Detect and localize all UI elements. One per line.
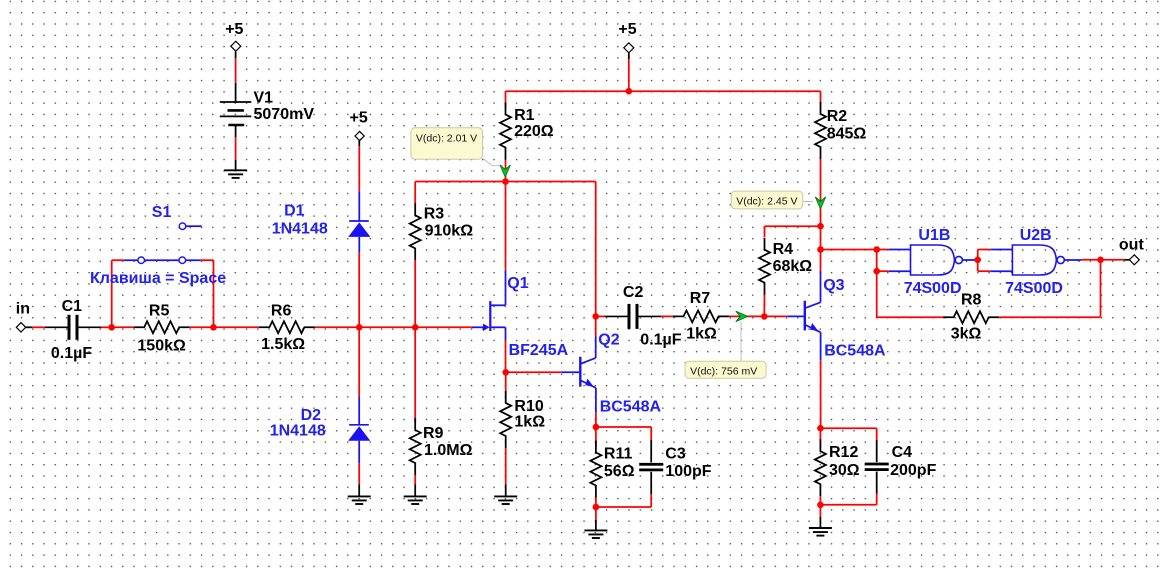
resistor R11 56 xyxy=(595,427,597,446)
wire Q3 emitter down xyxy=(820,332,822,360)
svg-text:1N4148: 1N4148 xyxy=(272,221,328,238)
probe V(dc) 756 mV xyxy=(685,361,766,378)
svg-text:R5: R5 xyxy=(149,303,170,320)
probe arrow (2.45 V) xyxy=(815,197,825,209)
svg-text:150kΩ: 150kΩ xyxy=(137,338,186,355)
wire to out terminal xyxy=(1101,259,1125,261)
nand gate U2B 74S00D xyxy=(1012,245,1056,275)
resistor R3 xyxy=(414,182,416,205)
capacitor C4 200pF xyxy=(876,440,878,462)
svg-text:R10: R10 xyxy=(514,398,543,415)
resistor R2 845 xyxy=(820,91,822,105)
svg-text:C2: C2 xyxy=(623,284,644,301)
resistor R6 xyxy=(214,326,259,328)
svg-text:R1: R1 xyxy=(514,107,535,124)
wire node I to U1B inputs xyxy=(821,249,877,251)
diode D1 1N4148 xyxy=(358,191,360,221)
capacitor C1 xyxy=(45,326,68,328)
svg-text:Q1: Q1 xyxy=(507,275,528,292)
svg-text:R6: R6 xyxy=(271,302,292,319)
wire D2 to ground xyxy=(358,463,360,484)
node C junction (diode branch) xyxy=(356,324,363,331)
node E horizontal wire xyxy=(415,181,596,183)
wire R7 to node G xyxy=(729,315,764,317)
wire Q2 collector to C2 node xyxy=(595,336,597,358)
svg-text:D2: D2 xyxy=(301,407,322,424)
wire +5 to D1 xyxy=(358,141,360,146)
svg-text:BF245A: BF245A xyxy=(509,342,569,359)
svg-text:C1: C1 xyxy=(62,298,83,315)
U1B input junction top xyxy=(873,246,880,253)
wire Q1 source to node F xyxy=(505,340,507,372)
R12 top junction xyxy=(817,425,824,432)
svg-text:C4: C4 xyxy=(892,444,913,461)
U1B input junction bottom xyxy=(876,250,878,272)
svg-text:74S00D: 74S00D xyxy=(1005,280,1063,297)
ground (R11) xyxy=(584,529,607,531)
svg-text:845Ω: 845Ω xyxy=(827,125,867,142)
probe V(dc) 2.45 V xyxy=(731,191,803,209)
wire node F to R10 xyxy=(505,372,507,394)
transistor Q3 BC548A xyxy=(788,315,804,317)
node A junction xyxy=(108,324,115,331)
svg-text:C3: C3 xyxy=(665,446,686,463)
resistor R4 68k xyxy=(759,238,770,295)
svg-text:R3: R3 xyxy=(424,205,445,222)
svg-text:74S00D: 74S00D xyxy=(904,280,962,297)
R12-C4 loop wires xyxy=(820,427,876,429)
svg-text:U1B: U1B xyxy=(918,227,950,244)
wire R4 to node G xyxy=(763,295,765,317)
wire R12 to ground xyxy=(819,505,821,517)
wire node G to Q3 base xyxy=(764,315,787,317)
ground (R9) xyxy=(404,495,427,497)
svg-text:5070mV: 5070mV xyxy=(254,106,315,123)
U1B output wire xyxy=(963,259,978,261)
ground (R12) xyxy=(809,527,832,529)
wire C1 to node A xyxy=(101,326,112,328)
rail junction xyxy=(626,88,633,95)
probe arrow (2.01 V) xyxy=(500,165,510,177)
wire R11 to ground xyxy=(595,507,597,520)
svg-text:1.5kΩ: 1.5kΩ xyxy=(261,336,305,353)
svg-text:+5: +5 xyxy=(618,21,636,38)
svg-text:3kΩ: 3kΩ xyxy=(951,325,982,342)
U2B input tie wires xyxy=(977,250,979,272)
nand gate U1B 74S00D xyxy=(911,245,955,275)
U1B output junction xyxy=(974,257,981,264)
capacitor C3 100pF xyxy=(650,440,652,462)
U2B output wire xyxy=(1064,259,1081,261)
svg-text:1kΩ: 1kΩ xyxy=(514,414,545,431)
svg-text:Q2: Q2 xyxy=(598,332,619,349)
node B junction xyxy=(210,324,217,331)
node H junction (R4 tap) xyxy=(817,223,824,230)
resistor R10 1k xyxy=(500,391,511,448)
wire node D to Q1 gate xyxy=(415,326,472,328)
wire V1 to ground xyxy=(235,125,237,137)
wire R5 to node B xyxy=(190,326,214,328)
wire node E to Q1 drain xyxy=(505,182,507,270)
svg-text:0.1µF: 0.1µF xyxy=(640,332,681,349)
wire R6 to node C xyxy=(315,326,359,328)
transistor Q1 BF245A JFET xyxy=(505,270,507,306)
wire node H to R4 xyxy=(765,225,821,227)
ground (V1) xyxy=(224,169,247,171)
node I junction (gate wire tap) xyxy=(817,246,824,253)
+5 rail wire xyxy=(506,90,821,92)
wire R8 to out node xyxy=(999,316,1100,318)
svg-text:in: in xyxy=(16,301,30,318)
node F junction xyxy=(502,369,509,376)
wire +5 to rail xyxy=(628,53,630,59)
svg-text:R11: R11 xyxy=(604,446,633,463)
switch S1 parallel loop wires xyxy=(111,260,113,327)
probe V(dc) 2.01 V xyxy=(411,128,483,160)
switch S1 xyxy=(124,259,201,261)
svg-text:S1: S1 xyxy=(152,204,172,221)
wire node C to D2 xyxy=(358,327,360,396)
svg-text:+5: +5 xyxy=(225,21,243,38)
out node junction xyxy=(1097,257,1104,264)
wire R2 down to node H xyxy=(820,159,822,226)
svg-text:56Ω: 56Ω xyxy=(604,463,635,480)
svg-text:1kΩ: 1kΩ xyxy=(686,325,717,342)
resistor R8 3k xyxy=(943,311,999,323)
R11 top junction xyxy=(593,424,600,431)
resistor R12 30 xyxy=(819,428,821,447)
svg-text:1.0MΩ: 1.0MΩ xyxy=(424,442,473,459)
resistor R1 220 xyxy=(505,91,507,107)
svg-text:V1: V1 xyxy=(254,90,274,107)
wire R1 to node E xyxy=(505,160,507,182)
wire D1 to node C xyxy=(358,252,360,327)
resistor R9 xyxy=(410,418,421,475)
svg-text:0.1µF: 0.1µF xyxy=(51,345,92,362)
svg-text:910kΩ: 910kΩ xyxy=(425,223,474,240)
resistor R7 1k xyxy=(673,310,729,322)
svg-text:68kΩ: 68kΩ xyxy=(773,258,813,275)
svg-text:Клавиша = Space: Клавиша = Space xyxy=(90,270,226,287)
svg-text:R2: R2 xyxy=(827,108,848,125)
svg-text:100pF: 100pF xyxy=(665,463,711,480)
wire +5 to V1 xyxy=(235,51,237,58)
R12 bottom junction xyxy=(817,502,824,509)
svg-text:1N4148: 1N4148 xyxy=(270,423,326,440)
wire node C to node D xyxy=(359,326,415,328)
wire in to C1 xyxy=(26,326,32,328)
node D junction (R3/R9 branch) xyxy=(412,324,419,331)
svg-text:R12: R12 xyxy=(829,444,858,461)
svg-text:R9: R9 xyxy=(423,425,444,442)
capacitor C2 0.1uF xyxy=(596,315,605,317)
svg-text:BC548A: BC548A xyxy=(824,343,886,360)
wire R3 to node D xyxy=(414,260,416,327)
svg-text:U2B: U2B xyxy=(1020,227,1052,244)
wire R10 to ground xyxy=(505,448,507,485)
node E junction xyxy=(502,178,509,185)
svg-text:V(dc): 756 mV: V(dc): 756 mV xyxy=(690,366,757,378)
svg-text:R8: R8 xyxy=(961,292,982,309)
R11 bottom junction xyxy=(593,504,600,511)
svg-text:+5: +5 xyxy=(350,110,368,127)
svg-text:out: out xyxy=(1119,237,1145,254)
wire node D to R9 xyxy=(414,327,416,423)
R11-C3 loop wires xyxy=(596,426,651,428)
probe arrow (756 mV) xyxy=(736,311,748,321)
node G junction xyxy=(761,313,768,320)
svg-text:R4: R4 xyxy=(773,241,794,258)
ground (D2) xyxy=(348,495,371,497)
battery V1 xyxy=(220,101,252,103)
wire node H to Q3 collector xyxy=(820,226,822,271)
wire C2 to R7 xyxy=(661,315,674,317)
svg-text:30Ω: 30Ω xyxy=(829,462,860,479)
diode D2 1N4148 xyxy=(358,397,360,425)
wire node E right edge down to C2 node xyxy=(595,182,597,317)
transistor Q2 BC548A xyxy=(561,371,579,373)
svg-text:V(dc): 2.45 V: V(dc): 2.45 V xyxy=(736,196,797,208)
svg-text:R7: R7 xyxy=(690,290,711,307)
svg-text:Q3: Q3 xyxy=(823,277,844,294)
wire Q2 emitter down xyxy=(595,388,597,413)
svg-text:V(dc): 2.01 V: V(dc): 2.01 V xyxy=(416,132,477,144)
svg-text:D1: D1 xyxy=(284,203,305,220)
svg-text:BC548A: BC548A xyxy=(600,398,662,415)
ground (R10) xyxy=(494,495,517,497)
wire node F to Q2 base xyxy=(506,371,562,373)
svg-text:200pF: 200pF xyxy=(890,462,936,479)
wire R9 to ground xyxy=(414,475,416,485)
C2 node junction xyxy=(592,313,599,320)
resistor R5 xyxy=(112,326,134,328)
feedback wire down from U1B input xyxy=(876,271,878,317)
svg-text:220Ω: 220Ω xyxy=(514,123,554,140)
